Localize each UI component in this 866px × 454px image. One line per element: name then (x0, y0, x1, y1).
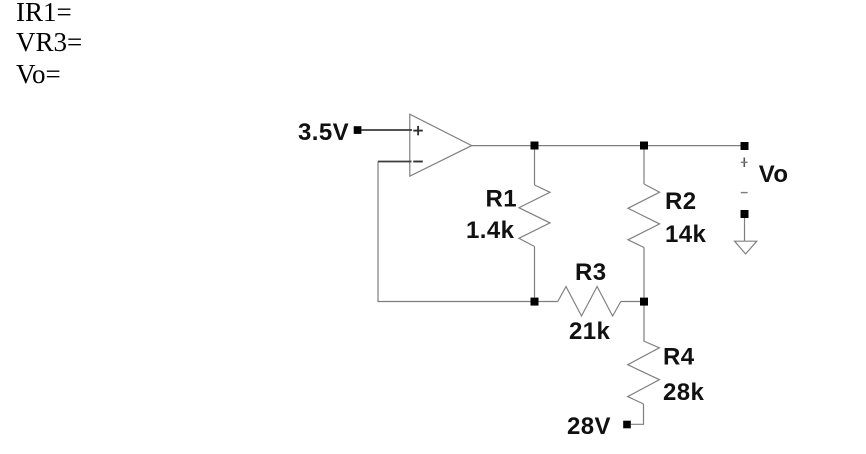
svg-text:R3: R3 (575, 259, 606, 286)
svg-text:Vo=: Vo= (16, 59, 61, 89)
svg-text:Vo: Vo (759, 161, 789, 188)
svg-text:28V: 28V (567, 413, 611, 440)
svg-text:21k: 21k (569, 318, 610, 345)
svg-text:R1: R1 (486, 186, 517, 213)
svg-text:1.4k: 1.4k (466, 217, 515, 244)
svg-text:R4: R4 (663, 344, 695, 371)
svg-text:VR3=: VR3= (16, 27, 82, 57)
svg-text:IR1=: IR1= (16, 0, 72, 27)
svg-text:28k: 28k (663, 379, 704, 406)
svg-text:14k: 14k (665, 221, 706, 248)
svg-text:3.5V: 3.5V (298, 119, 349, 146)
svg-text:R2: R2 (665, 188, 696, 215)
